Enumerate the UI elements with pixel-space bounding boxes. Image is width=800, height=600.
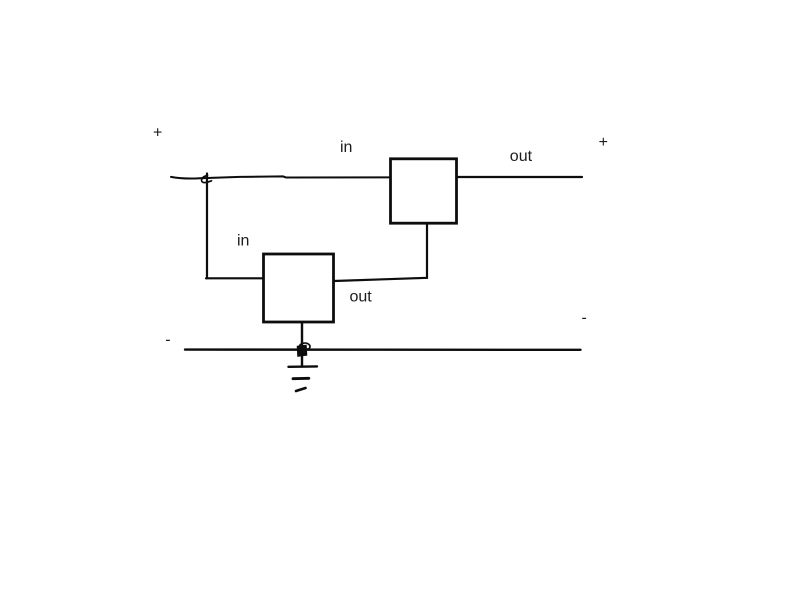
svg-text:in: in: [237, 233, 249, 250]
svg-text:in: in: [340, 139, 352, 156]
svg-text:+: +: [599, 134, 608, 151]
svg-text:out: out: [350, 288, 373, 305]
svg-text:-: -: [582, 310, 587, 327]
svg-text:-: -: [165, 332, 170, 349]
svg-text:out: out: [510, 148, 533, 165]
svg-text:+: +: [153, 125, 162, 142]
